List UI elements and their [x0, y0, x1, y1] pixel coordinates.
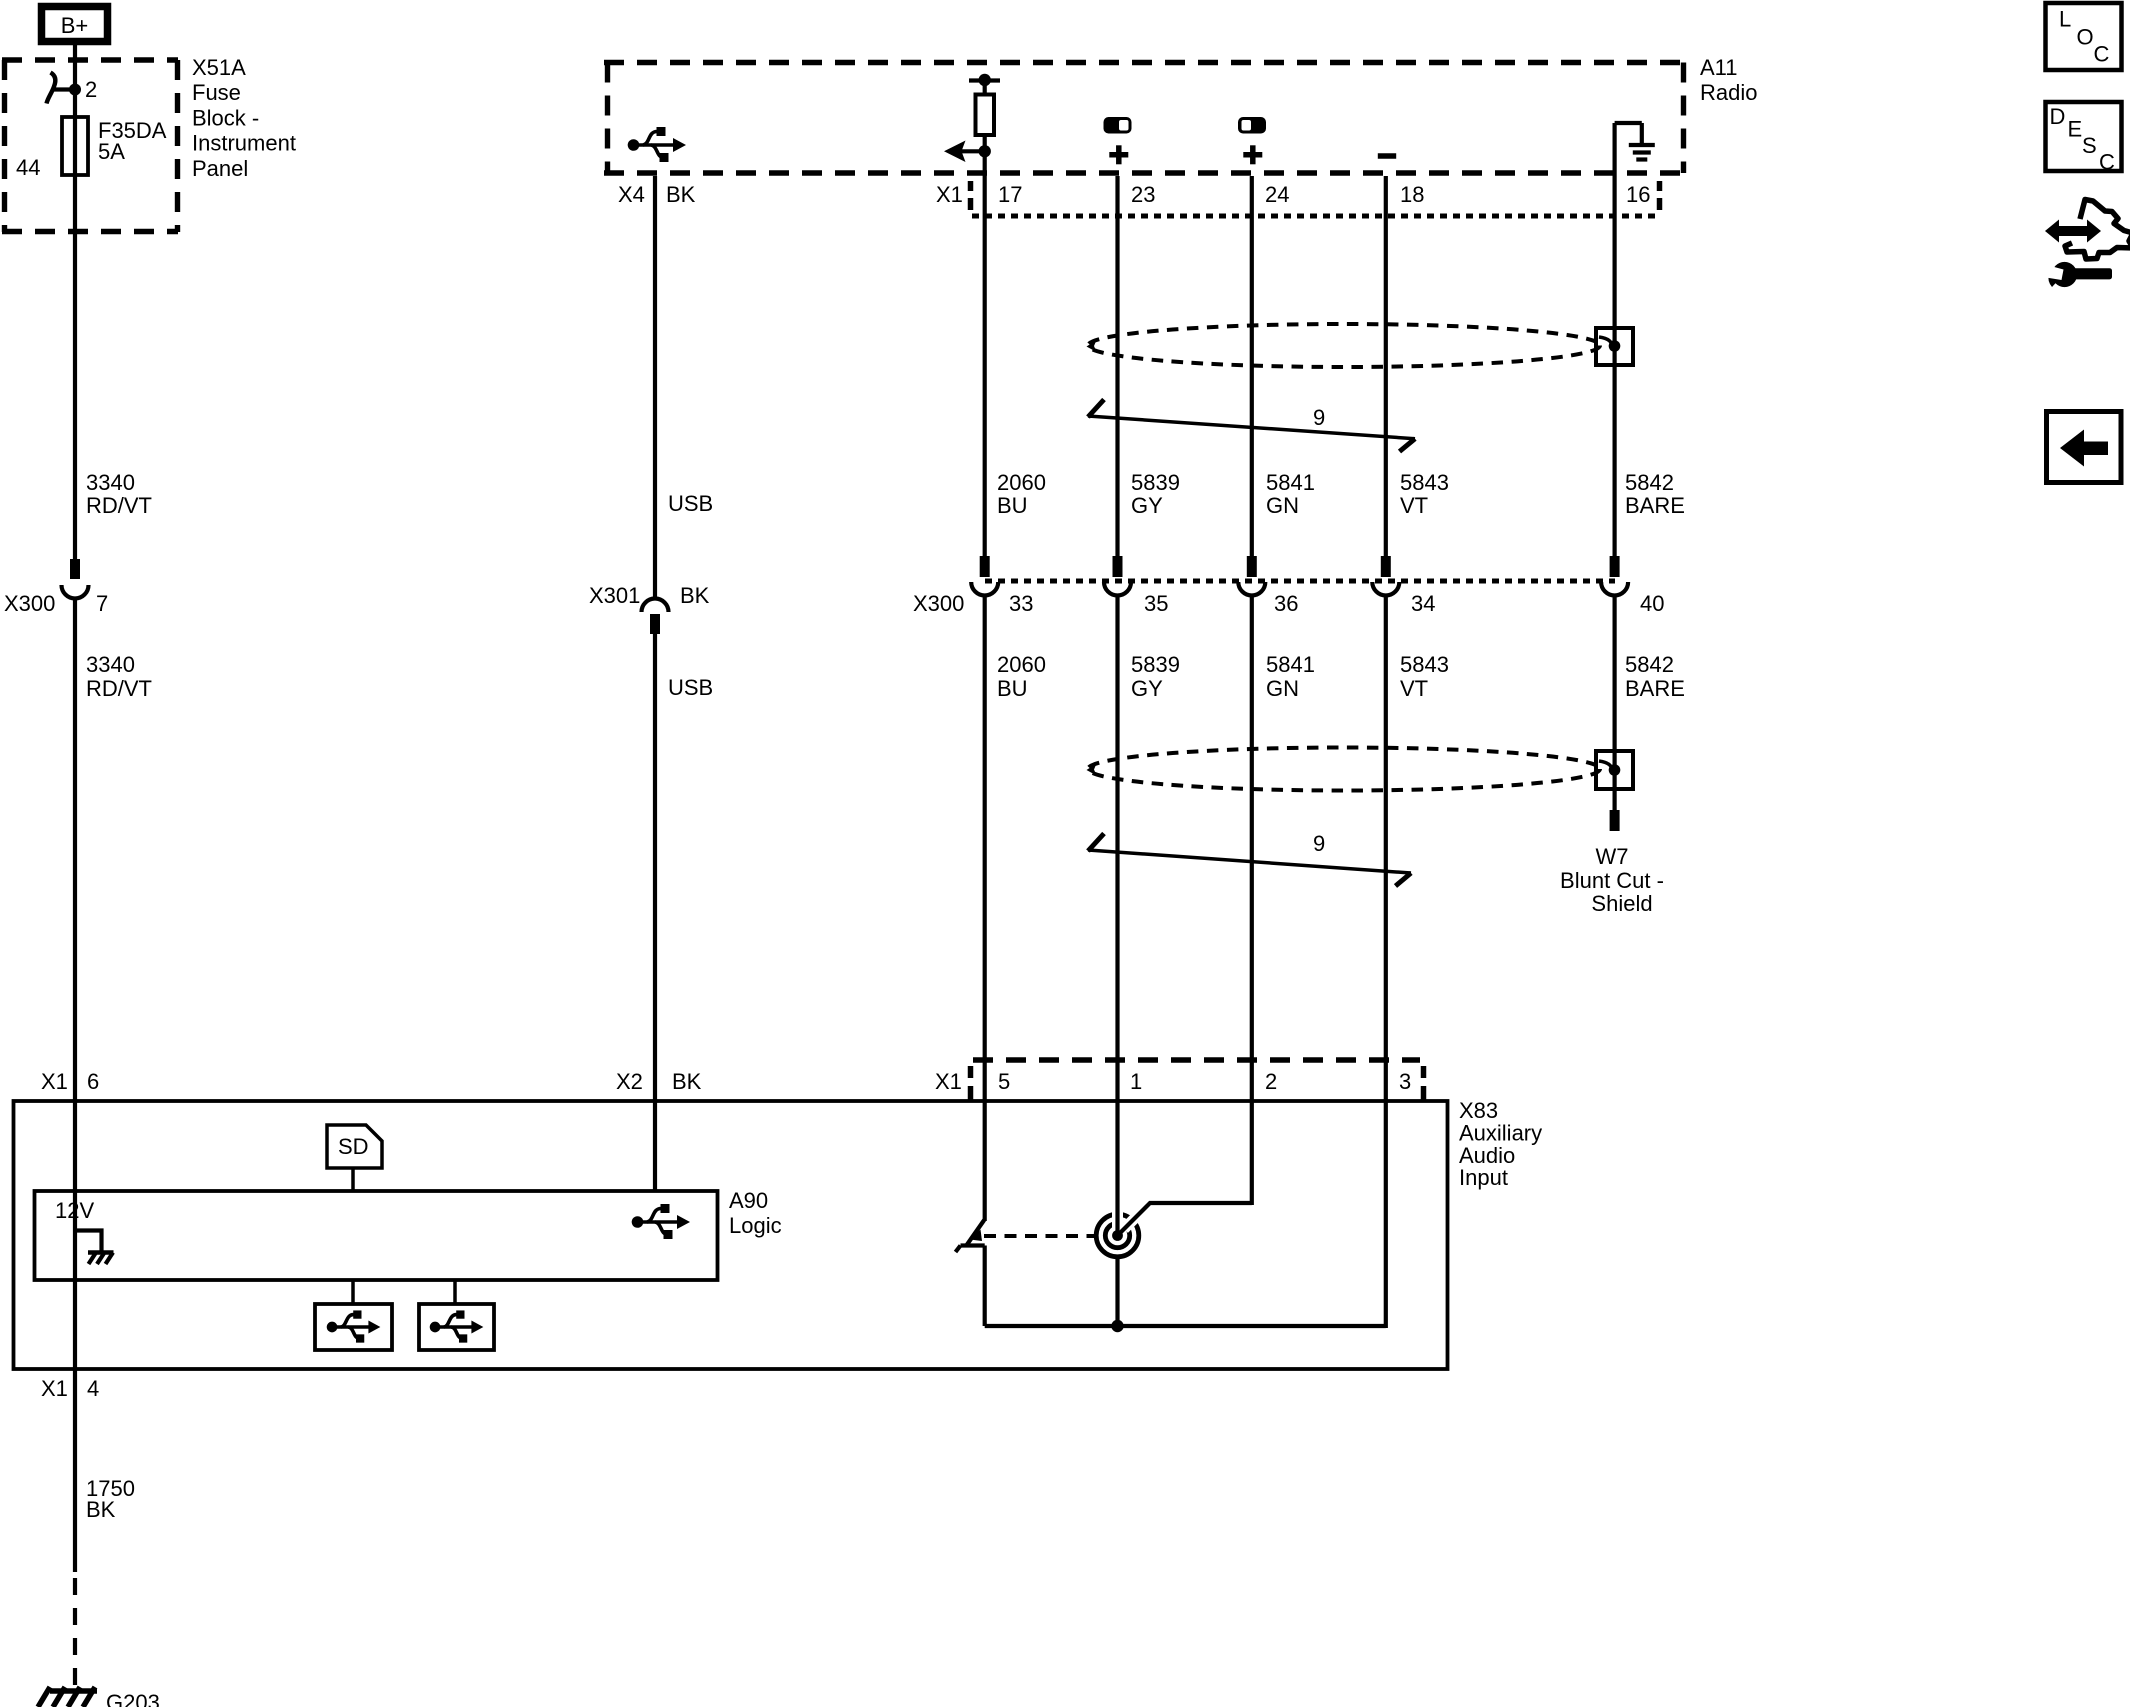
wire top bar to resistor — [983, 80, 987, 95]
svg-text:X300: X300 — [913, 591, 964, 616]
junction node top of resistor — [979, 74, 991, 86]
wire 5843 VT radio to X300 — [1384, 176, 1388, 558]
bracket dashes left of pin 5 — [968, 1066, 974, 1100]
svg-text:40: 40 — [1640, 591, 1664, 616]
svg-text:X1: X1 — [41, 1376, 68, 1401]
nav icon DESC letters — [2050, 104, 2116, 175]
connector X300 pin 36 — [1238, 556, 1265, 596]
svg-text:USB: USB — [668, 675, 713, 700]
mechanical linkage dashed line — [984, 1234, 1095, 1238]
jack detect switch lever — [966, 1220, 984, 1246]
svg-text:W7Blunt Cut -Shield: W7Blunt Cut -Shield — [1560, 844, 1664, 916]
radio box A11 (dashed) — [604, 63, 1686, 174]
shield termination box (upper) — [1596, 328, 1633, 365]
wire SD to logic module — [351, 1168, 355, 1191]
svg-text:5842BARE: 5842BARE — [1625, 652, 1685, 701]
svg-text:5841GN: 5841GN — [1266, 470, 1315, 518]
junction node on bottom bus — [1111, 1320, 1123, 1332]
wire 5839 GY radio to X300 — [1115, 176, 1119, 558]
connector X300 pin 40 — [1601, 556, 1628, 596]
ground G203 — [38, 1687, 97, 1707]
polarity - pin 18 — [1378, 153, 1396, 159]
svg-text:BK: BK — [672, 1069, 702, 1094]
resistor in radio output — [976, 95, 995, 136]
shield hook (upper) — [1599, 337, 1612, 347]
USB port box 2 — [419, 1304, 494, 1350]
svg-text:2: 2 — [1265, 1069, 1277, 1094]
bracket dashes right of pin 16 — [1657, 181, 1663, 210]
svg-text:A11Radio: A11Radio — [1700, 55, 1757, 105]
svg-text:3340RD/VT: 3340RD/VT — [86, 652, 152, 701]
svg-text:1: 1 — [1130, 1069, 1142, 1094]
svg-text:6: 6 — [87, 1069, 99, 1094]
svg-text:24: 24 — [1265, 182, 1289, 207]
switch linkage arrowhead — [970, 1230, 982, 1242]
connector X300 pin 34 — [1372, 556, 1399, 596]
svg-text:X301: X301 — [589, 583, 640, 608]
polarity + pin 23 — [1109, 145, 1128, 164]
svg-text:16: 16 — [1626, 182, 1650, 207]
switch contact end tick — [956, 1246, 961, 1253]
jack center node — [1112, 1230, 1123, 1241]
shield termination box (lower) — [1596, 751, 1633, 789]
wire 5843 VT X300 down — [1384, 597, 1388, 1060]
svg-text:E: E — [2068, 117, 2083, 142]
svg-text:L: L — [2059, 7, 2071, 32]
wire 5841 GN X300 down — [1250, 597, 1254, 1060]
svg-text:D: D — [2050, 104, 2066, 129]
svg-text:X300: X300 — [4, 591, 55, 616]
svg-text:35: 35 — [1144, 591, 1168, 616]
speaker balance icon left — [1104, 117, 1132, 134]
svg-text:SD: SD — [338, 1134, 369, 1159]
svg-text:A90Logic: A90Logic — [729, 1188, 782, 1238]
wire 5839 GY pin 1 to jack tip — [1115, 1060, 1119, 1233]
svg-text:33: 33 — [1009, 591, 1033, 616]
svg-text:5839GY: 5839GY — [1131, 652, 1180, 701]
wire A90 to USB port 2 — [453, 1280, 457, 1304]
svg-text:3340RD/VT: 3340RD/VT — [86, 470, 152, 518]
svg-text:5842BARE: 5842BARE — [1625, 470, 1685, 518]
connector X300 pin 35 — [1104, 556, 1131, 596]
svg-text:4: 4 — [87, 1376, 99, 1401]
svg-text:F35DA5A: F35DA5A — [98, 118, 167, 164]
switch fixed contact — [961, 1243, 985, 1247]
svg-text:C: C — [2099, 150, 2115, 175]
wire dashed tail to ground — [73, 1578, 77, 1691]
blunt cut bar W7 — [1610, 810, 1620, 831]
polarity + pin 24 — [1243, 145, 1262, 164]
connector X300 pin 33 — [971, 556, 998, 596]
back arrow box — [2047, 412, 2122, 483]
signal arrow line — [950, 149, 985, 153]
nav icon DESC box — [2046, 102, 2122, 171]
aux input box X83 — [14, 1101, 1448, 1369]
bracket dashes left of pin 17 — [968, 181, 974, 210]
back arrow — [2060, 430, 2108, 467]
wire 5842 BARE X300 to W7 — [1612, 597, 1616, 810]
connector X300 pin 7 (pin and socket) — [62, 559, 89, 599]
twisted-lead line with count 9 (lower) — [1088, 834, 1411, 887]
connector row bottom dashed line — [972, 214, 1660, 219]
svg-text:18: 18 — [1400, 182, 1424, 207]
svg-text:5839GY: 5839GY — [1131, 470, 1180, 518]
shield hook (lower) — [1599, 761, 1612, 771]
connector X300 row dashed line — [985, 579, 1615, 584]
nav icon LOC box — [2046, 3, 2122, 70]
svg-text:5: 5 — [998, 1069, 1010, 1094]
svg-text:5843VT: 5843VT — [1400, 652, 1449, 701]
svg-text:1750BK: 1750BK — [86, 1476, 135, 1522]
shield ellipse tip fold (lower) — [1087, 764, 1097, 776]
bracket dashes right of pin 3 — [1421, 1066, 1427, 1100]
SD card symbol — [327, 1125, 382, 1168]
USB icon in A90 — [632, 1204, 690, 1239]
fuse block box X51A (dashed) — [2, 60, 178, 232]
bottom bus wire to 5843 VT pin 3 — [985, 1324, 1386, 1328]
nav icon LOC letters — [2059, 7, 2110, 67]
wire X300 to X83 — [73, 600, 77, 1572]
svg-text:44: 44 — [16, 155, 40, 180]
shield ellipse tip fold (upper) — [1087, 340, 1097, 352]
wire 2060 BU X300 to X83 — [983, 597, 987, 1221]
connector X1 row dashed line (aux input) — [973, 1057, 1420, 1062]
svg-text:9: 9 — [1313, 405, 1325, 430]
svg-text:O: O — [2077, 25, 2094, 50]
svg-text:9: 9 — [1313, 831, 1325, 856]
wire jack sleeve to bottom bus — [1115, 1257, 1119, 1326]
shield node (lower) — [1609, 764, 1621, 776]
svg-text:12V: 12V — [55, 1198, 94, 1223]
wire 5842 BARE radio to X300 — [1612, 123, 1616, 558]
svg-text:BK: BK — [680, 583, 710, 608]
svg-text:USB: USB — [668, 491, 713, 516]
junction node pin 2 — [69, 84, 81, 96]
svg-text:23: 23 — [1131, 182, 1155, 207]
svg-text:X83AuxiliaryAudioInput: X83AuxiliaryAudioInput — [1459, 1098, 1542, 1190]
svg-text:36: 36 — [1274, 591, 1298, 616]
wire switch to bottom bus — [983, 1246, 987, 1327]
service icon wrench — [2045, 262, 2112, 287]
svg-text:X51AFuseBlock -InstrumentPanel: X51AFuseBlock -InstrumentPanel — [192, 55, 296, 181]
wire A90 to USB port 1 — [351, 1280, 355, 1304]
svg-text:X1: X1 — [935, 1069, 962, 1094]
svg-text:X1: X1 — [936, 182, 963, 207]
svg-text:7: 7 — [96, 591, 108, 616]
wire jack to 5841 GN pin 2 — [1118, 1203, 1252, 1236]
junction node arrow takeoff — [979, 145, 991, 157]
signal arrowhead — [944, 141, 966, 163]
terminal clip at pin 2 — [47, 73, 76, 104]
shield ellipse (upper) — [1088, 324, 1600, 367]
svg-text:BK: BK — [666, 182, 696, 207]
aux jack rings — [1096, 1207, 1146, 1257]
USB icon port 1 — [327, 1310, 381, 1342]
shield node (upper) — [1609, 340, 1621, 352]
USB port box 1 — [315, 1304, 392, 1350]
power symbol B+ — [42, 7, 108, 42]
svg-text:2: 2 — [85, 77, 97, 102]
svg-text:C: C — [2094, 42, 2110, 67]
svg-text:X1: X1 — [41, 1069, 68, 1094]
svg-text:X2: X2 — [616, 1069, 643, 1094]
twisted-lead line with count 9 (upper) — [1088, 400, 1415, 452]
svg-text:5841GN: 5841GN — [1266, 652, 1315, 701]
svg-text:2060BU: 2060BU — [997, 470, 1046, 518]
logic module A90 — [35, 1191, 718, 1280]
svg-text:17: 17 — [998, 182, 1022, 207]
internal ground of A90 — [75, 1231, 114, 1265]
radio output terminal bar pin 17 — [969, 78, 1000, 82]
wire USB X4 to X301 — [653, 176, 657, 599]
svg-text:B+: B+ — [61, 13, 89, 38]
speaker balance icon right — [1238, 117, 1266, 134]
wire 5841 GN pin 2 down — [1250, 1060, 1254, 1205]
wire 5839 GY X300 down — [1115, 597, 1119, 1060]
svg-text:2060BU: 2060BU — [997, 652, 1046, 701]
service icon double arrow — [2045, 220, 2101, 243]
svg-text:3: 3 — [1399, 1069, 1411, 1094]
radio internal ground pin 16 — [1615, 123, 1655, 160]
connector X301 (socket and pin) — [642, 599, 669, 635]
svg-text:34: 34 — [1411, 591, 1435, 616]
wire 5843 VT pin 3 down — [1384, 1060, 1388, 1328]
shield ellipse (lower) — [1088, 748, 1600, 791]
svg-text:X4: X4 — [618, 182, 645, 207]
svg-text:5843VT: 5843VT — [1400, 470, 1449, 518]
wire resistor down — [983, 135, 987, 558]
service icon outline shape — [2065, 200, 2130, 260]
fuse F35DA 5A — [62, 117, 88, 175]
USB icon port 2 — [430, 1310, 484, 1342]
wire 5841 GN radio to X300 — [1250, 176, 1254, 558]
svg-text:G203: G203 — [106, 1690, 160, 1707]
wire X301 to X83 — [653, 634, 657, 1191]
wire B+ down through fuse to connector X300 — [73, 45, 77, 559]
svg-text:S: S — [2082, 133, 2097, 158]
USB icon in radio — [628, 127, 686, 162]
